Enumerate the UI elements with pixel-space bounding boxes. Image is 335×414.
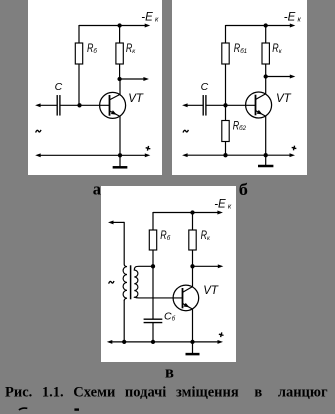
wire: panel a capacitor to base [60,104,110,106]
capacitor Cb panel v [144,318,163,320]
caption line 2 fragment: top of letter b (cut off) [19,408,27,410]
node: panel a collector output node [117,77,121,81]
resistor Rb1 panel b [222,43,229,64]
node: panel v Cb rail junction [151,340,155,344]
resistor Rb panel v [149,230,156,250]
transformer primary winding panel v [123,264,127,300]
transformer core panel v [130,265,132,299]
node: panel v secondary top junction [151,264,155,268]
wire: panel v primary lead to bottom rail [123,300,125,342]
wire: panel a Rk to collector node [119,64,121,79]
wire: panel v output arrow [193,264,224,268]
wire: panel b Rb2 to bottom rail [225,142,227,156]
wire: panel v bottom rail with arrows [107,340,223,344]
wire: panel v Rk to collector node [192,250,194,266]
wire: panel v Rb to node [152,250,154,266]
transformer secondary winding panel v [134,266,182,298]
wire: panel a Rk branch upper [119,26,121,45]
wire: panel a collector vertical [119,79,121,95]
node: panel b emitter rail junction [264,153,268,157]
wire: panel v input arrow and primary lead [108,220,124,264]
node: panel a base junction [77,103,81,107]
wire: panel a top supply rail [79,24,150,28]
transistor VT panel a [100,92,126,118]
node: panel v top rail junction [190,210,194,214]
label ~ panel a [36,130,41,133]
wire: panel v emitter vertical [192,309,194,342]
svg-text:Рис. 1.1. Схеми подачі зміщенн: Рис. 1.1. Схеми подачі зміщення в ланцюг [5,385,328,401]
wire: panel v Cb to bottom rail [152,323,154,342]
wire: panel b bottom rail with arrows [182,153,295,157]
wire: panel b Rk branch upper [265,26,267,45]
resistor Rk panel a [116,43,123,64]
wire: panel v Rk branch upper [192,213,194,232]
panel v background [101,186,236,362]
wire: panel v Cb branch upper [152,266,154,319]
transistor VT panel v [173,285,199,311]
label ~ panel b [183,130,188,133]
wire: panel b collector vertical [265,77,267,95]
node: panel v emitter rail junction [190,340,194,344]
resistor Rk panel v [189,230,196,250]
wire: panel a output arrow [120,77,149,81]
caption line 2 fragment: dot of letter i (cut off) [74,408,79,410]
node: panel b top rail junction [264,23,268,27]
capacitor C panel a [56,95,58,116]
ground panel v [186,342,200,354]
svg-text:б: б [239,180,248,199]
svg-text:VT: VT [276,93,292,105]
label + panel a [145,145,151,151]
svg-text:в: в [165,362,174,381]
wire: panel v top supply rail [153,211,223,215]
ground panel a [113,155,128,167]
transistor VT panel b [246,92,272,118]
wire: panel b Rb1 to base [225,64,227,105]
label + panel b [291,145,297,151]
resistor Rb2 panel b [222,121,229,142]
panel b background [172,0,307,175]
wire: panel b input line with left arrow [182,103,203,107]
wire: panel b Rb1 branch upper [225,25,227,44]
wire: panel a Rb branch upper [78,25,80,44]
wire: panel b Rb2 branch upper [225,105,227,121]
svg-text:C: C [201,81,209,93]
wire: panel b output arrow [266,75,296,79]
svg-text:C: C [55,81,63,93]
resistor Rk panel b [262,43,269,64]
svg-text:VT: VT [203,285,219,297]
node: panel b base junction [223,103,227,107]
wire: panel a emitter vertical [119,116,121,155]
wire: panel a bottom rail with arrows [35,153,150,157]
wire: panel a input line with left arrow [35,103,57,107]
label + panel v [218,332,224,338]
capacitor C panel b [202,95,204,116]
node: panel a emitter rail junction [118,153,122,157]
node: panel a top rail junction [117,23,121,27]
wire: panel b capacitor to base [206,104,256,106]
panel a background [28,0,162,175]
node: panel b collector output node [264,74,268,78]
wire: panel b Rk to collector node [265,64,267,77]
svg-text:VT: VT [128,93,144,105]
wire: panel v collector vertical [192,266,194,287]
wire: panel v Rb branch upper [152,212,154,231]
svg-text:а: а [93,180,101,199]
wire: panel a Rb to base [78,64,80,105]
node: panel v collector output node [190,264,194,268]
label ~ panel v [109,281,114,284]
wire: panel b top supply rail [226,24,296,28]
resistor Rb panel a [75,43,82,64]
node: panel v primary rail junction [122,340,126,344]
ground panel b [258,155,273,166]
node: panel b Rb2 rail junction [223,153,227,157]
wire: panel b emitter vertical [265,116,267,155]
